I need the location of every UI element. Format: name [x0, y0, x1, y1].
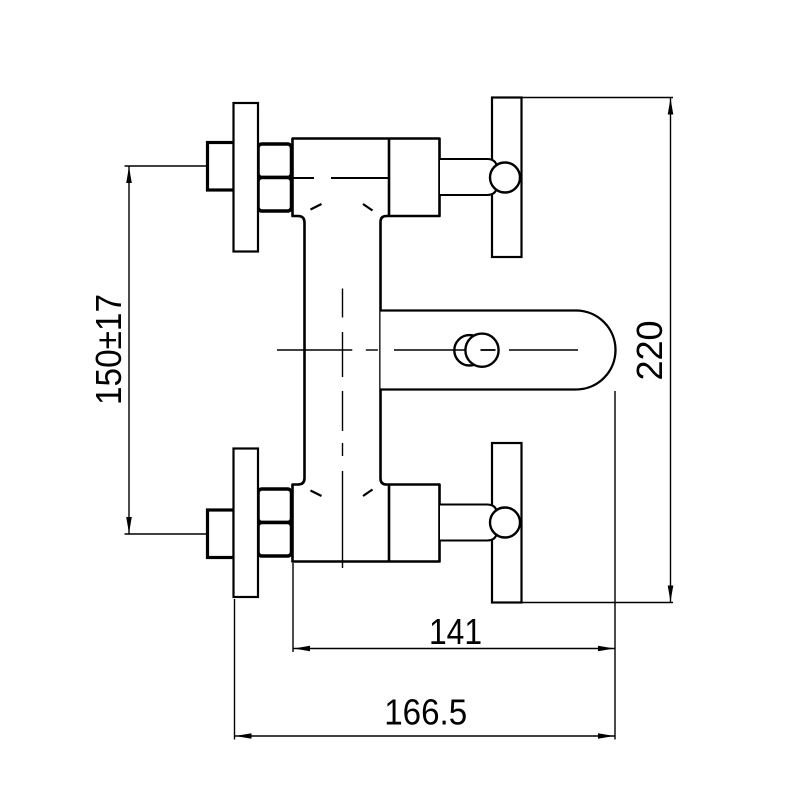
top handle circle	[490, 163, 520, 193]
centerline over back circle	[394, 349, 470, 351]
spout (stadium shape)	[381, 311, 616, 390]
dimension 141 extension line left	[292, 563, 294, 652]
bottom handle bar	[492, 443, 522, 603]
faucet body: top tee + vertical pipe + bottom tee (one outline)	[293, 139, 440, 562]
bottom hex nut lower face	[258, 523, 292, 557]
spout button front circle	[465, 334, 498, 367]
top wall connector	[208, 143, 235, 191]
shared extension line right (spout tip)	[614, 391, 616, 740]
dimension 141 line	[293, 648, 615, 650]
top hex nut upper face	[258, 144, 292, 178]
arrow left 166.5	[235, 733, 251, 739]
bottom valve bonnet divider	[388, 486, 391, 561]
dimension 166.5 extension line left	[234, 599, 236, 740]
dimension 220 extension line bottom	[522, 602, 674, 604]
top valve bonnet divider	[388, 140, 391, 216]
top handle bar	[492, 98, 522, 258]
top body hidden line	[294, 177, 315, 179]
top hex nut lower face	[258, 178, 292, 212]
dimension 220 line	[670, 98, 672, 603]
arrow left 141	[294, 646, 310, 652]
dimension 150±17 line	[128, 166, 130, 534]
top tee chamfer dash right	[363, 204, 373, 211]
bottom tee chamfer dash left	[311, 491, 322, 497]
bottom handle circle	[490, 508, 520, 538]
arrow right 141	[598, 646, 614, 652]
bottom tee chamfer dash right	[363, 490, 373, 497]
dimension 166.5 line	[235, 735, 616, 737]
horizontal centerline left segments	[277, 349, 378, 351]
arrow up 150	[126, 167, 132, 183]
top flange	[234, 103, 259, 252]
dimension 150±17 extension line bottom	[125, 533, 208, 535]
arrow right 166.5	[598, 733, 614, 739]
bottom hex nut upper face	[258, 489, 292, 523]
arrow down 150	[126, 517, 132, 533]
svg-text:166.5: 166.5	[384, 692, 467, 733]
bottom wall connector	[208, 510, 235, 558]
centerline inside button	[481, 349, 496, 351]
bottom valve stem	[440, 505, 497, 541]
spout button back circle	[454, 335, 484, 365]
dimension 220 extension line top	[522, 97, 674, 99]
vertical centerline	[342, 289, 344, 569]
svg-text:141: 141	[429, 611, 482, 652]
centerline right of button	[509, 349, 578, 351]
dimension 150±17 extension line top	[125, 165, 208, 167]
top valve stem	[440, 159, 497, 195]
svg-text:150±17: 150±17	[88, 294, 129, 405]
arrow down 220	[668, 586, 674, 602]
bottom flange	[234, 449, 259, 598]
svg-text:220: 220	[629, 320, 670, 380]
top tee chamfer dash left	[311, 204, 322, 210]
arrow up 220	[668, 98, 674, 114]
